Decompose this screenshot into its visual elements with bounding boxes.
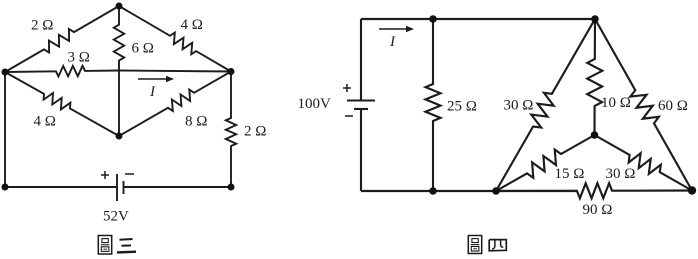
resistor R_25ohm [426, 19, 441, 191]
resistor R_2ohm_topleft [5, 6, 119, 72]
node top fig3 [116, 3, 123, 10]
node bottom fig3 [116, 133, 123, 140]
svg-text:60 Ω: 60 Ω [658, 98, 688, 114]
resistor R_4ohm_bottomleft [5, 72, 119, 136]
left wire lower (battery to bottom rail) [360, 109, 362, 191]
minus sign fig4 [345, 115, 353, 117]
wire right node down [230, 72, 232, 119]
caption figure-four (CJK drawn) [468, 236, 481, 254]
node bottom-left vertex fig4 [492, 187, 500, 195]
svg-text:10 Ω: 10 Ω [601, 95, 631, 111]
node bottom-left corner fig3 [2, 184, 9, 191]
battery 52V long plate [116, 174, 118, 201]
svg-text:I: I [149, 84, 156, 100]
svg-text:2 Ω: 2 Ω [31, 18, 53, 34]
minus sign fig3 [125, 173, 134, 175]
bottom wire right of battery [124, 186, 232, 188]
resistor R_4ohm_topright [119, 6, 231, 72]
svg-text:15 Ω: 15 Ω [555, 166, 585, 182]
battery 100V long plate [347, 99, 375, 101]
node bottom-right corner fig3 [228, 184, 235, 191]
top rail fig4 [361, 18, 595, 20]
resistor R_90ohm [496, 183, 692, 198]
svg-text:2 Ω: 2 Ω [244, 124, 266, 140]
svg-text:100V: 100V [298, 96, 332, 112]
svg-text:4 Ω: 4 Ω [34, 114, 56, 130]
resistor R_60ohm [595, 19, 692, 191]
node apex fig4 [591, 15, 599, 23]
node left fig3 [2, 69, 9, 76]
resistor R_10ohm [587, 19, 602, 135]
plus sign fig4 [343, 87, 351, 89]
resistor R_6ohm_vertical [114, 6, 124, 71]
resistor R_3ohm_horizontal [5, 66, 119, 77]
svg-text:I: I [389, 34, 396, 50]
svg-text:3 Ω: 3 Ω [68, 50, 90, 66]
svg-text:90 Ω: 90 Ω [583, 202, 613, 218]
caption three (CJK drawn) [117, 239, 136, 252]
caption four (CJK drawn) [489, 240, 506, 251]
svg-text:6 Ω: 6 Ω [132, 41, 154, 57]
resistor R_15ohm [496, 135, 595, 191]
battery 100V short plate [354, 108, 368, 110]
node center Y fig4 [591, 131, 599, 139]
resistor R_30ohm_lowerright [595, 135, 693, 191]
bottom rail fig4 left segment [361, 190, 577, 192]
current arrow I fig3 [138, 78, 168, 80]
svg-text:52V: 52V [103, 209, 129, 225]
svg-text:4 Ω: 4 Ω [181, 17, 203, 33]
caption figure-three (CJK drawn) [98, 236, 111, 255]
left wire upper (to battery) [360, 19, 362, 100]
svg-text:30 Ω: 30 Ω [504, 98, 534, 114]
svg-text:8 Ω: 8 Ω [185, 114, 207, 130]
svg-text:30 Ω: 30 Ω [606, 166, 636, 182]
node bottom-right vertex fig4 [688, 186, 696, 194]
current arrow I fig4 [379, 28, 408, 30]
node right fig3 [228, 68, 235, 75]
wire center down to bottom node [118, 71, 120, 137]
bottom wire left of battery [5, 186, 117, 188]
wire center to right node [119, 71, 231, 72]
resistor R_2ohm_right [226, 118, 236, 187]
node top-left rail fig4 [429, 15, 437, 23]
svg-text:25 Ω: 25 Ω [447, 98, 477, 114]
wire left-node to bottom-left corner [4, 72, 6, 187]
node bottom under 25ohm [429, 187, 437, 195]
resistor R_30ohm_upperleft [496, 19, 595, 191]
battery 52V short plate [123, 181, 125, 194]
resistor R_8ohm [119, 72, 231, 137]
plus sign fig3 [101, 174, 109, 176]
